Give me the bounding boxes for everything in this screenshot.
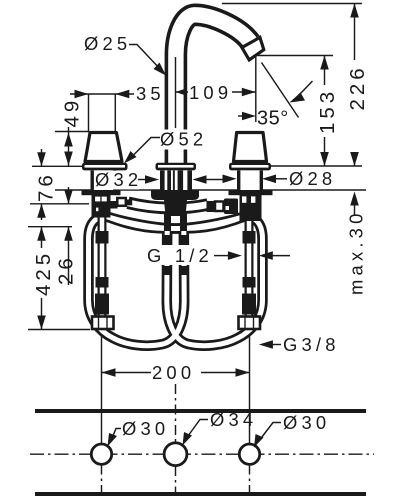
dim 226 text bg xyxy=(345,60,364,152)
ext line hose top left xyxy=(28,226,72,228)
left shank xyxy=(91,170,117,190)
dim 76 arrow up xyxy=(37,204,46,218)
O30 left arrowhead xyxy=(108,433,118,447)
dim 76 line top xyxy=(41,149,43,166)
dim 425 line xyxy=(41,227,43,330)
left knob xyxy=(85,133,122,162)
ext vertical hole3 xyxy=(249,331,251,444)
svg-text:109: 109 xyxy=(189,82,232,103)
dim 49 arrow up xyxy=(64,133,73,147)
dim 425 arrow down xyxy=(37,316,46,330)
ext vertical knob left xyxy=(88,94,90,132)
O28 tail xyxy=(276,178,287,180)
svg-text:max.30: max.30 xyxy=(346,209,367,295)
tee nipple right xyxy=(180,212,187,231)
angle curved arrowhead xyxy=(290,93,306,103)
center shank xyxy=(160,170,192,190)
O34 arrowhead xyxy=(183,432,193,446)
dim 35 line xyxy=(70,93,134,95)
hole2 circle xyxy=(164,443,187,466)
G12 text bg xyxy=(146,245,212,265)
angle arrow on vertical xyxy=(242,112,256,121)
hole1 circle xyxy=(91,444,111,464)
ext line supply nut bottom left xyxy=(28,329,90,331)
angle arrow leader xyxy=(238,115,243,117)
ext line plate top left xyxy=(32,165,82,167)
G12 arrow right xyxy=(259,251,273,260)
hose right white core xyxy=(89,217,245,346)
dim 26 arrow down xyxy=(64,190,73,204)
spout end cap xyxy=(242,37,264,60)
svg-text:200: 200 xyxy=(152,362,195,383)
ext line spout top xyxy=(222,3,362,5)
riser right band2 xyxy=(243,277,256,288)
spout tube black xyxy=(176,15,250,166)
G38 tail xyxy=(272,344,281,346)
dim 425 arrow up xyxy=(37,227,46,241)
left plate xyxy=(82,163,128,171)
svg-text:Ø32: Ø32 xyxy=(95,169,142,190)
spout tube white xyxy=(176,15,253,166)
G12 arrow left xyxy=(228,251,242,260)
sag hose left connector xyxy=(127,200,132,206)
right plate xyxy=(229,163,271,171)
angle curved arrow xyxy=(298,81,313,97)
O30 left leader xyxy=(112,429,122,440)
O30 right arrowhead xyxy=(254,434,264,448)
O32 arrow right xyxy=(193,175,207,184)
O28 arrow right xyxy=(262,175,276,184)
dim 109 arrow left xyxy=(176,88,187,96)
max30 arrow up xyxy=(350,192,359,206)
svg-text:26: 26 xyxy=(55,254,78,285)
hose right-valve to tee (outer black) xyxy=(89,217,245,346)
O52 leader xyxy=(129,138,160,160)
ext line knob top left xyxy=(55,131,89,133)
riser right block xyxy=(242,294,256,315)
dim 153 line xyxy=(324,56,326,167)
dim 35 arrow left xyxy=(75,90,89,99)
svg-text:153: 153 xyxy=(316,88,339,134)
svg-text:Ø30: Ø30 xyxy=(122,418,169,439)
max30 line xyxy=(354,205,356,216)
ext line plate top right xyxy=(265,165,362,167)
dim 49 arrow down xyxy=(64,152,73,166)
O32 leader line xyxy=(138,179,147,181)
riser left block xyxy=(95,294,109,315)
dim 226 arrow top xyxy=(350,4,359,18)
riser right tube xyxy=(245,212,254,318)
sag hose right block xyxy=(207,201,215,212)
svg-text:Ø25: Ø25 xyxy=(84,33,131,54)
dim 153 arrow bottom xyxy=(320,152,329,166)
dim 26 line bottom xyxy=(68,227,70,285)
dim 49 line xyxy=(68,127,70,166)
hose fittings on tee tubes xyxy=(162,235,172,246)
sag hose right fitting box xyxy=(215,202,224,212)
O25 leader arrowhead xyxy=(154,63,167,76)
sag hose left fitting box xyxy=(117,198,126,206)
hole3 circle xyxy=(239,444,259,464)
svg-text:Ø34: Ø34 xyxy=(210,409,257,430)
riser right nut xyxy=(239,317,261,330)
spout inner thin line xyxy=(175,57,177,128)
angle diagonal line xyxy=(262,63,299,118)
deck line xyxy=(55,189,366,191)
hose left-valve to tee (outer black) xyxy=(107,217,263,346)
hole3 vertical centerline xyxy=(249,444,251,496)
sag hose left neck xyxy=(111,201,118,209)
center plate xyxy=(156,163,197,171)
svg-text:425: 425 xyxy=(32,250,55,296)
dim 26 line top xyxy=(68,187,70,204)
ext line spout tip level xyxy=(258,55,333,57)
G12 leader xyxy=(214,255,229,257)
O25 leader xyxy=(129,45,161,71)
tee body xyxy=(151,190,199,200)
sag hose white xyxy=(128,203,208,208)
dim 109 line xyxy=(176,91,256,93)
svg-text:G3/8: G3/8 xyxy=(283,334,340,355)
G12 tail xyxy=(272,255,290,257)
dim 76 arrow down xyxy=(37,152,46,166)
dim 200 line xyxy=(102,372,250,374)
riser left band2 xyxy=(96,277,109,288)
dim 226 arrow bottom xyxy=(350,152,359,166)
O34 leader xyxy=(188,420,208,437)
right shank xyxy=(237,170,263,190)
G38 arrow xyxy=(259,340,273,349)
dim 76 line bottom xyxy=(41,204,43,220)
dim 153 text bg xyxy=(315,85,334,137)
O32 arrow left xyxy=(145,175,159,184)
hole1 vertical centerline xyxy=(101,444,103,496)
dim 26 arrow up xyxy=(64,227,73,241)
riser right band1 xyxy=(243,231,256,244)
ext line deck nut bottom left xyxy=(30,203,89,205)
dim 200 arrow right xyxy=(236,368,250,377)
svg-text:49: 49 xyxy=(61,97,84,128)
right valve side flange xyxy=(224,199,238,215)
ext vertical spout tip xyxy=(255,56,257,123)
O28 arrow left xyxy=(223,175,237,184)
O30 right leader xyxy=(260,423,281,440)
svg-text:Ø52: Ø52 xyxy=(160,129,207,150)
svg-text:Ø30: Ø30 xyxy=(283,412,330,433)
basin bottom line xyxy=(35,492,366,496)
ext vertical hole1 xyxy=(101,331,103,444)
riser left tube xyxy=(98,212,107,318)
dim 109 arrow right xyxy=(242,88,256,97)
dim 109 text bg xyxy=(188,83,232,101)
dim 226 line xyxy=(354,4,356,167)
tee nipple left xyxy=(164,212,171,231)
svg-text:226: 226 xyxy=(346,64,369,110)
svg-text:Ø28: Ø28 xyxy=(289,168,336,189)
dim 200 arrow left xyxy=(102,368,116,377)
O52 leader arrowhead xyxy=(124,151,137,164)
riser left band1 xyxy=(96,231,109,244)
dim 153 arrow top xyxy=(320,56,329,70)
dim 425 text bg xyxy=(33,248,50,298)
svg-text:35: 35 xyxy=(136,83,165,104)
dim 35 arrow right xyxy=(115,90,129,99)
sag hose black xyxy=(128,203,208,208)
svg-text:35°: 35° xyxy=(257,108,289,130)
O52 text bg xyxy=(157,130,211,150)
hole2 vertical centerline xyxy=(175,384,177,496)
basin top line xyxy=(35,409,366,413)
O32 tail xyxy=(206,179,223,181)
ext vertical knob right xyxy=(114,94,116,132)
basin centerline xyxy=(30,453,374,455)
dim 200 text bg xyxy=(151,363,201,382)
tee trapezoid xyxy=(164,200,187,216)
riser left nut xyxy=(92,317,114,330)
hose left white core xyxy=(107,217,263,346)
svg-text:76: 76 xyxy=(35,171,58,202)
O32 text bg xyxy=(94,171,139,190)
svg-text:G 1/2: G 1/2 xyxy=(147,245,213,266)
right knob xyxy=(234,133,267,162)
